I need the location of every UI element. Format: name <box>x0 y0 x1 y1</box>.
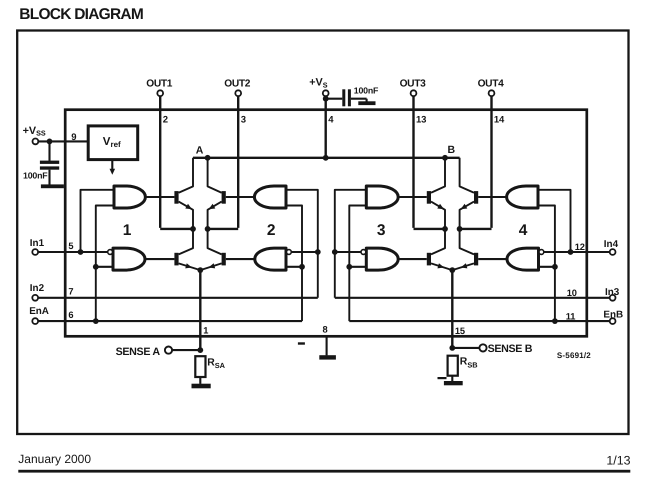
svg-text:B: B <box>448 144 456 156</box>
svg-text:1: 1 <box>203 326 208 336</box>
svg-text:In2: In2 <box>30 283 45 294</box>
svg-text:4: 4 <box>519 222 528 239</box>
svg-text:January 2000: January 2000 <box>18 452 91 466</box>
svg-text:11: 11 <box>566 311 575 321</box>
svg-text:8: 8 <box>323 325 328 335</box>
svg-text:OUT3: OUT3 <box>400 78 426 89</box>
svg-text:EnA: EnA <box>29 306 49 317</box>
svg-text:OUT2: OUT2 <box>224 78 250 89</box>
svg-text:2: 2 <box>163 114 168 125</box>
svg-text:OUT4: OUT4 <box>478 78 504 89</box>
svg-text:In4: In4 <box>604 239 619 250</box>
svg-text:14: 14 <box>494 114 505 125</box>
svg-text:OUT1: OUT1 <box>146 78 172 89</box>
svg-text:1: 1 <box>123 222 132 239</box>
svg-text:S-5691/2: S-5691/2 <box>557 351 591 360</box>
svg-text:5: 5 <box>68 241 73 251</box>
svg-text:10: 10 <box>567 288 577 298</box>
svg-text:13: 13 <box>416 114 426 125</box>
svg-text:4: 4 <box>328 114 334 125</box>
svg-text:3: 3 <box>377 222 386 239</box>
svg-text:BLOCK DIAGRAM: BLOCK DIAGRAM <box>19 6 143 23</box>
svg-text:SENSE A: SENSE A <box>116 346 161 358</box>
svg-text:7: 7 <box>68 287 73 297</box>
svg-text:100nF: 100nF <box>354 85 379 95</box>
svg-text:6: 6 <box>68 310 73 320</box>
svg-text:A: A <box>196 145 204 157</box>
svg-text:In1: In1 <box>30 238 45 249</box>
svg-text:SENSE B: SENSE B <box>488 343 533 355</box>
svg-text:9: 9 <box>71 132 76 143</box>
svg-text:100nF: 100nF <box>23 171 48 181</box>
svg-text:1/13: 1/13 <box>606 453 630 467</box>
svg-text:15: 15 <box>455 326 465 336</box>
svg-text:12: 12 <box>575 242 585 252</box>
svg-text:2: 2 <box>267 222 275 239</box>
svg-text:3: 3 <box>241 114 246 125</box>
